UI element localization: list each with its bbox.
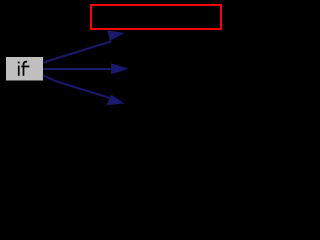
wire arrow 2: if -> middle (hidden) node: [43, 63, 129, 74]
wire arrow 3: if -> bottom (hidden) node: [43, 75, 124, 105]
node red (truncated node, red border): [91, 5, 221, 29]
label "if" drawn as vector glyphs: [18, 62, 20, 64]
wire arrow 1: if -> red node: [43, 30, 125, 62]
node if (gray box): [6, 57, 44, 82]
